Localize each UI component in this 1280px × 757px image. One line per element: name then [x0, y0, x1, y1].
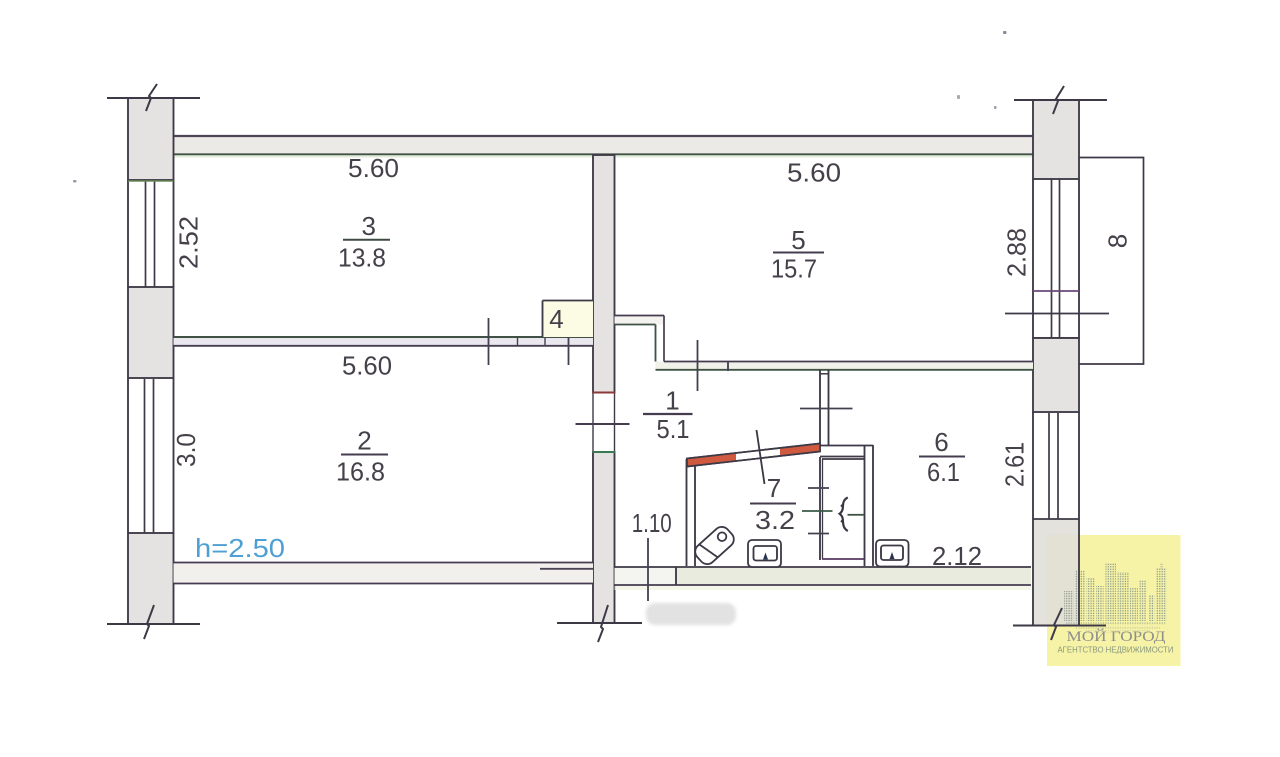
svg-text:МОЙ ГОРОД: МОЙ ГОРОД [1067, 628, 1166, 645]
dim tick [697, 340, 699, 391]
right wall middle block [1033, 338, 1079, 412]
diagonal strike on red wall [757, 430, 765, 484]
svg-text:2.61: 2.61 [1000, 442, 1030, 487]
right wall bottom block outline [1032, 519, 1034, 625]
svg-text:1: 1 [665, 386, 679, 416]
break line bottom left [107, 623, 200, 625]
right wall column [1005, 100, 1109, 625]
svg-text:3.2: 3.2 [755, 505, 795, 535]
svg-text:8: 8 [1103, 234, 1133, 248]
closet room 4 box [543, 301, 594, 338]
balcony outline [1079, 158, 1144, 365]
svg-text:2: 2 [357, 426, 371, 456]
svg-text:15.7: 15.7 [771, 254, 817, 284]
svg-text:7: 7 [767, 473, 781, 503]
specks [1003, 31, 1007, 34]
svg-text:6.1: 6.1 [927, 457, 960, 487]
break line top right [1014, 99, 1107, 101]
svg-text:6: 6 [934, 427, 948, 457]
logo yellow square [1047, 535, 1181, 666]
svg-text:АГЕНТСТВО НЕДВИЖИМОСТИ: АГЕНТСТВО НЕДВИЖИМОСТИ [1058, 646, 1174, 655]
svg-text:5.60: 5.60 [342, 351, 392, 381]
svg-text:2.52: 2.52 [174, 216, 204, 269]
middle wall door opening [592, 394, 616, 452]
svg-text:5.1: 5.1 [657, 414, 690, 444]
sink room 6 [876, 540, 909, 567]
room 1 step wall top [615, 316, 665, 325]
svg-text:5: 5 [791, 225, 805, 255]
top wall band [174, 136, 1034, 155]
bathroom 7 left wall [686, 459, 688, 566]
bathtub [692, 524, 737, 568]
svg-text:3.0: 3.0 [171, 433, 201, 467]
shaft wall above (between rooms 1 and 6) [819, 370, 821, 445]
interior wall between rooms 3 and 2 [174, 337, 594, 346]
break line bottom middle [557, 622, 642, 624]
dim tick on wall [568, 317, 570, 365]
wall under room 5 [656, 362, 1034, 371]
small tick [727, 361, 729, 371]
svg-text:16.8: 16.8 [336, 457, 385, 487]
balcony door dim line [1005, 313, 1109, 315]
left wall bottom block [128, 533, 174, 624]
right wall window 2.88 [1032, 179, 1034, 338]
shaft dim ticks [808, 487, 829, 489]
dim tick 1.10 [647, 538, 649, 601]
toilet room 7 [748, 540, 781, 567]
blurred blob [646, 603, 736, 625]
svg-text:2.88: 2.88 [1002, 228, 1032, 277]
bottom wall corridor/bath/kitchen [615, 567, 1032, 585]
svg-text:13.8: 13.8 [338, 243, 386, 273]
middle wall door dim tick [576, 423, 630, 425]
svg-text:1.10: 1.10 [632, 508, 672, 538]
wall grey block over logo (right wall bottom block) [1033, 519, 1079, 625]
left wall window 2.52 [127, 180, 129, 287]
shaft box right of bathroom [819, 457, 821, 560]
svg-text:5.60: 5.60 [348, 153, 399, 183]
left wall middle block [128, 287, 174, 378]
bottom wall room 2 [174, 563, 594, 584]
dim tick [800, 408, 853, 410]
left wall column [128, 98, 174, 624]
svg-text:5.60: 5.60 [787, 158, 841, 188]
right wall top block [1033, 100, 1079, 179]
middle wall column [593, 155, 615, 623]
room 1 step wall vertical [655, 325, 657, 362]
svg-text:2.12: 2.12 [932, 541, 982, 571]
wall segment dividers [517, 337, 519, 346]
left wall window 3.0 [127, 378, 129, 533]
svg-text:h=2.50: h=2.50 [195, 533, 285, 563]
svg-text:4: 4 [549, 304, 563, 334]
logo skyline buildings [1064, 563, 1167, 633]
dim tick on wall [488, 318, 490, 365]
right wall window 2.61 [1032, 412, 1034, 519]
bathroom door symbol [840, 498, 848, 532]
svg-text:3: 3 [361, 211, 375, 241]
break line bottom right [1013, 625, 1106, 627]
break line top left [107, 97, 200, 99]
bathroom red sloped wall [687, 444, 820, 467]
left wall top block [128, 98, 174, 180]
